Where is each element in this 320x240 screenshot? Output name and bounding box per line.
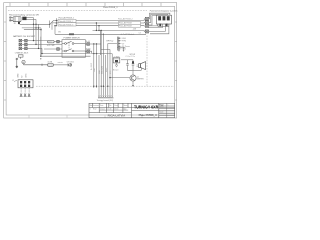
svg-text:Plate-A5 P0558_3: Plate-A5 P0558_3 [59, 23, 74, 26]
svg-text:Page: Page [159, 104, 163, 106]
svg-text:PPM OUT: PPM OUT [102, 66, 104, 74]
svg-text:CHG: CHG [25, 73, 27, 78]
svg-text:Scale: Scale [159, 111, 163, 113]
svg-text:CE 5Ohm: CE 5Ohm [67, 62, 75, 64]
svg-text:Beeper: Beeper [113, 68, 119, 71]
svg-text:Plate-A5 P0558_2: Plate-A5 P0558_2 [59, 20, 74, 23]
svg-text:Plate P0558_3: Plate P0558_3 [139, 114, 158, 117]
svg-text:1: 1 [90, 109, 91, 111]
svg-text:Potentiometer/regulator 0-2-Oh: Potentiometer/regulator 0-2-Ohm [150, 9, 178, 12]
svg-text:BEEPER: BEEPER [137, 79, 145, 81]
svg-text:Plate-A5 P0558_1: Plate-A5 P0558_1 [59, 17, 74, 20]
svg-text:Turnigy board (9X): Turnigy board (9X) [97, 100, 114, 102]
svg-text:CHARGE JACK: CHARGE JACK [15, 52, 29, 55]
svg-text:J2: J2 [12, 80, 14, 82]
svg-text:RIGA-LATVIA: RIGA-LATVIA [108, 113, 126, 117]
svg-text:Drawn: Drawn [100, 109, 105, 111]
svg-text:SP 1W: SP 1W [130, 54, 136, 56]
svg-text:12.08: 12.08 [107, 109, 111, 111]
svg-text:1: 1 [168, 105, 169, 107]
svg-text:BATTERY CH. SOCKET: BATTERY CH. SOCKET [13, 35, 36, 38]
svg-text:BGND: BGND [86, 48, 92, 50]
svg-text:Receiver battery connector JR: Receiver battery connector JR [9, 14, 39, 17]
svg-text:Norm: Norm [124, 105, 129, 107]
svg-text:POWER SWITCH: POWER SWITCH [64, 38, 81, 40]
svg-text:Plate-A5 P0558: Plate-A5 P0558 [119, 22, 132, 25]
svg-text:GND: GND [17, 73, 19, 78]
svg-text:Plate-A5 P0558_2: Plate-A5 P0558_2 [118, 18, 133, 21]
svg-text:Check: Check [114, 105, 119, 107]
svg-text:Check: Check [114, 109, 119, 111]
svg-text:RF Pow: RF Pow [107, 41, 114, 43]
svg-text:GND: GND [122, 38, 127, 40]
svg-text:Na: Na [109, 105, 111, 107]
svg-text:Plate-A5 P0558: Plate-A5 P0558 [119, 25, 132, 28]
svg-text:GND: GND [122, 49, 127, 51]
svg-text:TURNIGY 6XR: TURNIGY 6XR [134, 105, 159, 110]
svg-text:PPM: PPM [122, 41, 126, 43]
svg-text:B+ 6VDC: B+ 6VDC [91, 62, 93, 70]
svg-text:SLP CMP: SLP CMP [47, 45, 56, 47]
svg-text:C1 1u C2 1u: C1 1u C2 1u [125, 56, 135, 58]
svg-text:Plate-P0558_3: Plate-P0558_3 [103, 6, 118, 9]
